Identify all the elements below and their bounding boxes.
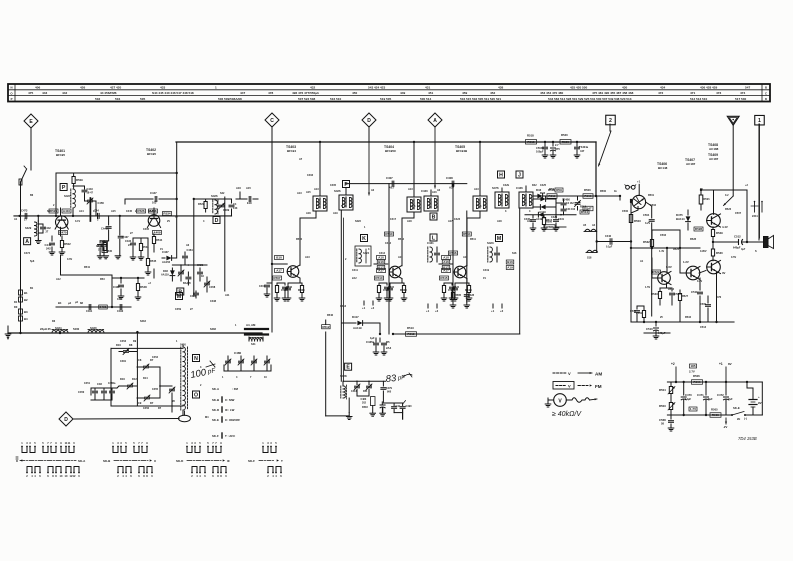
- svg-text:II : MW: II : MW: [225, 398, 235, 402]
- label TS402: [146, 148, 156, 156]
- svg-text:452: 452: [490, 91, 495, 95]
- svg-text:+1: +1: [362, 306, 366, 310]
- value box TS406 base: [652, 258, 661, 274]
- svg-text:R546: R546: [327, 314, 334, 317]
- svg-text:C428: C428: [468, 294, 475, 297]
- svg-text:A15: A15: [111, 210, 116, 213]
- svg-text:473: 473: [716, 91, 721, 95]
- svg-text:B: B: [178, 289, 182, 295]
- svg-text:3.2V: 3.2V: [645, 222, 650, 225]
- transistor TS407: [686, 266, 700, 280]
- svg-text:R507: R507: [273, 276, 281, 280]
- svg-text:S427: S427: [64, 194, 71, 198]
- svg-text:18-47: 18-47: [87, 191, 94, 194]
- svg-text:R505: R505: [298, 288, 305, 292]
- svg-text:C510: C510: [646, 327, 653, 331]
- svg-text:C48: C48: [97, 382, 102, 386]
- svg-text:C503: C503: [660, 234, 667, 237]
- diode D40: [533, 205, 556, 214]
- svg-text:100μF: 100μF: [536, 150, 544, 154]
- svg-text:+2: +2: [500, 309, 504, 313]
- svg-text:0.5V: 0.5V: [731, 256, 736, 259]
- svg-text:R534: R534: [685, 316, 692, 319]
- svg-text:431: 431: [425, 86, 430, 90]
- svg-text:BF194: BF194: [287, 149, 296, 153]
- switch SK-D axis: [176, 459, 230, 463]
- svg-text:P: P: [62, 185, 66, 191]
- wire B+ stage1: [314, 141, 321, 196]
- svg-text:C470: C470: [685, 393, 692, 397]
- label C420b: [190, 291, 199, 298]
- svg-text:R520: R520: [561, 133, 568, 137]
- trimmer C43a: [178, 266, 184, 281]
- svg-text:S426: S426: [334, 189, 341, 193]
- value box R547: [583, 198, 593, 210]
- transistor TS409: [707, 214, 721, 228]
- svg-text:C480a: C480a: [108, 382, 116, 385]
- wire: [368, 127, 370, 142]
- label +1 +2: [426, 304, 439, 313]
- varicap cluster: [159, 367, 175, 412]
- wire: [430, 190, 432, 196]
- label D1 D0: [14, 300, 18, 309]
- svg-text:406: 406: [35, 86, 40, 90]
- value box R514b: [580, 206, 589, 215]
- diode D427: [162, 250, 177, 264]
- svg-text:B2: B2: [24, 298, 28, 302]
- svg-text:471: 471: [690, 91, 695, 95]
- svg-text:R528: R528: [50, 209, 58, 213]
- value box R518: [526, 134, 537, 145]
- svg-text:R514: R514: [465, 288, 472, 292]
- value box pair: [506, 260, 514, 270]
- wire: [322, 320, 331, 416]
- svg-text:R585: R585: [455, 294, 462, 297]
- svg-text:0.6V: 0.6V: [67, 258, 72, 261]
- svg-text:+1: +1: [719, 362, 723, 366]
- decoupling caps: [536, 141, 560, 158]
- label TS401: [55, 149, 65, 157]
- label 4.4V: [722, 225, 728, 229]
- emitter network TS405: [448, 279, 472, 301]
- wire node out: [712, 241, 734, 243]
- coil S434: [52, 326, 68, 333]
- svg-text:D503: D503: [362, 406, 368, 409]
- capacitor C444: [45, 236, 55, 252]
- transistor TS405: [454, 265, 467, 278]
- label 5400: [73, 327, 80, 331]
- svg-text:438: 438: [498, 86, 503, 90]
- wire: [501, 188, 503, 192]
- svg-text:-2V: -2V: [723, 425, 727, 429]
- label S433: [40, 327, 51, 331]
- diode D43: [536, 188, 543, 198]
- capacitor C509: [700, 296, 711, 322]
- resistor R503a: [629, 215, 641, 249]
- svg-text:C: C: [270, 118, 274, 124]
- svg-text:0.2V: 0.2V: [697, 280, 702, 283]
- label 3V: [722, 271, 726, 275]
- svg-text:R510: R510: [375, 276, 383, 280]
- wire: [630, 199, 632, 322]
- svg-text:2A2: 2A2: [352, 277, 357, 280]
- svg-text:242: 242: [46, 247, 51, 251]
- svg-text:A15: A15: [246, 186, 251, 190]
- svg-text:(-): (-): [744, 417, 747, 421]
- svg-text:A10: A10: [443, 256, 449, 260]
- node O box: [193, 391, 200, 398]
- emitter network TS403: [281, 279, 305, 301]
- svg-text:C417: C417: [390, 218, 397, 221]
- resistor R502: [60, 236, 71, 252]
- capacitor C432: [101, 216, 111, 241]
- svg-text:C427: C427: [162, 250, 169, 254]
- svg-text:453 454 470 480: 453 454 470 480: [540, 91, 564, 95]
- svg-text:R518: R518: [527, 140, 535, 144]
- svg-text:C461: C461: [86, 309, 93, 313]
- resistor R529: [711, 227, 723, 242]
- main tuning coil: [181, 345, 188, 415]
- wire B+ stage3: [474, 141, 481, 196]
- svg-text:C408: C408: [446, 176, 453, 180]
- svg-text:M4: M4: [205, 416, 209, 419]
- svg-text:C451: C451: [84, 382, 91, 385]
- svg-text:+2: +2: [371, 306, 375, 310]
- svg-text:C435a: C435a: [366, 340, 375, 344]
- svg-text:640μF: 640μF: [733, 246, 741, 250]
- svg-text:A18: A18: [407, 220, 412, 223]
- svg-text:516 510: 516 510: [330, 97, 341, 101]
- FM dipole antenna: [21, 166, 27, 182]
- svg-text:R521: R521: [704, 197, 711, 201]
- svg-text:R532: R532: [643, 240, 650, 244]
- wire: [519, 209, 521, 334]
- IF transformer S426b: [339, 195, 353, 210]
- value box pair: [377, 260, 385, 270]
- svg-text:426: 426: [80, 86, 85, 90]
- svg-text:C456: C456: [143, 407, 150, 410]
- svg-text:B3: B3: [24, 310, 28, 314]
- svg-text:425 420 550: 425 420 550: [570, 86, 587, 90]
- node M box: [176, 293, 183, 300]
- dial lamp symbol: [625, 185, 636, 190]
- svg-text:SK-D: SK-D: [176, 459, 184, 463]
- svg-text:R508: R508: [400, 288, 407, 292]
- svg-text:+: +: [758, 395, 760, 399]
- value box R516: [449, 251, 458, 255]
- svg-text:B1: B1: [24, 291, 28, 295]
- svg-text:A10: A10: [398, 256, 403, 259]
- node C diamond: [265, 113, 279, 127]
- capacitor C471: [697, 382, 713, 415]
- svg-text:C459: C459: [175, 308, 182, 311]
- left secondary row: [56, 301, 131, 313]
- svg-text:BA114: BA114: [676, 217, 685, 221]
- wire: [272, 263, 287, 265]
- antenna symbol: [727, 116, 739, 125]
- svg-text:C4: C4: [233, 202, 237, 206]
- svg-text:0.2: 0.2: [725, 194, 729, 197]
- capacitor C473: [21, 209, 28, 222]
- svg-text:R505: R505: [711, 408, 718, 412]
- capacitor C443: [73, 186, 94, 198]
- label 1.2V: [683, 260, 689, 264]
- capacitor C446r: [605, 235, 613, 249]
- emitter network TS404: [383, 279, 407, 301]
- coil S427: [64, 189, 75, 216]
- value box R510: [385, 232, 394, 236]
- wire bottom rail: [8, 332, 262, 334]
- strip row 2 numbers: [28, 91, 745, 95]
- label C426: [516, 186, 523, 190]
- legend FM line: [553, 382, 602, 390]
- switch SK-F axis: [248, 459, 283, 463]
- svg-text:III : LW: III : LW: [225, 408, 235, 412]
- resistor R531: [636, 306, 646, 322]
- diode D475: [676, 210, 690, 230]
- capacitor C472: [717, 382, 733, 415]
- misc labels mid: [296, 158, 558, 317]
- svg-text:R533: R533: [668, 288, 675, 291]
- svg-text:475: 475: [28, 91, 33, 95]
- svg-text:202: 202: [362, 401, 367, 404]
- svg-text:C504: C504: [643, 213, 650, 217]
- svg-text:R530: R530: [106, 250, 113, 253]
- svg-text:T : AFC: T : AFC: [225, 434, 236, 438]
- svg-text:C445: C445: [126, 210, 133, 213]
- value box temp: [689, 364, 697, 374]
- strip row 1 numbers: [35, 86, 750, 90]
- label -2 arrow: [723, 417, 747, 430]
- svg-text:C480: C480: [234, 351, 242, 355]
- svg-text:14μF: 14μF: [685, 397, 691, 401]
- value box R528r: [694, 227, 703, 231]
- wire: [30, 128, 32, 170]
- ratio det RC: [524, 207, 565, 231]
- label SK-E legend: [212, 417, 240, 422]
- svg-text:S430: S430: [90, 326, 97, 330]
- wire: [596, 196, 598, 253]
- svg-text:R545: R545: [150, 259, 157, 263]
- svg-text:R527: R527: [682, 295, 689, 298]
- svg-text:R512: R512: [322, 325, 330, 329]
- svg-text:A409: A409: [153, 231, 161, 235]
- svg-text:474: 474: [740, 91, 745, 95]
- svg-text:449: 449: [400, 91, 405, 95]
- svg-text:2μF: 2μF: [728, 397, 733, 401]
- wire: [286, 264, 288, 272]
- value box R500: [583, 188, 593, 198]
- svg-text:R533: R533: [651, 292, 658, 296]
- switch SK-B contacts: [112, 441, 153, 478]
- svg-text:C507: C507: [735, 212, 742, 215]
- svg-text:R528: R528: [690, 238, 697, 241]
- svg-text:C511: C511: [691, 290, 698, 294]
- svg-text:1V: 1V: [483, 277, 486, 280]
- svg-text:S42: S42: [220, 192, 225, 195]
- capacitor C473: [659, 415, 674, 431]
- legend AM line: [553, 371, 602, 377]
- svg-text:B4: B4: [58, 301, 62, 305]
- svg-text:C472: C472: [717, 393, 724, 397]
- tank S423: [487, 241, 500, 262]
- svg-text:R580: R580: [546, 221, 553, 224]
- svg-text:C447: C447: [150, 191, 157, 195]
- label SK-F legend: [212, 433, 236, 438]
- wire detector line: [533, 195, 597, 197]
- svg-text:D48: D48: [163, 269, 168, 273]
- svg-text:504 515 502 505 511 520 521: 504 515 502 505 511 520 521: [460, 97, 501, 101]
- wire: [597, 240, 633, 242]
- svg-text:C458: C458: [209, 285, 216, 289]
- svg-text:C471: C471: [697, 393, 704, 397]
- svg-text:D10: D10: [116, 343, 121, 347]
- ferrite sleeve: [19, 179, 22, 185]
- trimmer T4: [137, 395, 160, 405]
- headphone jack A5 A4: [583, 224, 597, 232]
- svg-text:R5: R5: [386, 340, 390, 344]
- switch SK-D contacts: [186, 441, 227, 478]
- svg-text:506 509/508A/98: 506 509/508A/98: [218, 97, 242, 101]
- wire: [745, 382, 762, 415]
- IF transformer S421a: [407, 197, 421, 212]
- gang cap bar: [89, 198, 91, 221]
- svg-text:S434: S434: [55, 326, 62, 330]
- svg-text:R500: R500: [584, 194, 592, 198]
- svg-text:P: P: [11, 97, 13, 101]
- svg-text:C469: C469: [223, 208, 230, 212]
- wire: [701, 190, 748, 243]
- capacitor C448: [247, 197, 258, 206]
- svg-text:A18: A18: [306, 212, 311, 215]
- svg-text:434: 434: [660, 86, 665, 90]
- svg-text:D417: D417: [352, 315, 359, 319]
- switch SK-E: [731, 406, 746, 421]
- svg-text:A27: A27: [449, 186, 455, 190]
- svg-text:AA119: AA119: [161, 274, 169, 277]
- wire base rail: [14, 215, 232, 217]
- svg-text:AC188: AC188: [709, 147, 719, 151]
- node A box: [24, 238, 31, 245]
- stage feed TS404: [374, 256, 388, 273]
- svg-text:R514: R514: [581, 210, 589, 214]
- label TS404: [384, 145, 397, 153]
- svg-text:C450: C450: [78, 390, 85, 394]
- svg-text:A: A: [433, 118, 437, 124]
- label TS408: [708, 143, 719, 151]
- svg-text:A17: A17: [276, 269, 282, 273]
- svg-text:0.1μF: 0.1μF: [606, 246, 613, 249]
- svg-text:3V: 3V: [722, 271, 726, 275]
- svg-text:R527: R527: [198, 202, 205, 206]
- diode D417: [342, 315, 381, 335]
- capacitor C447: [125, 191, 178, 205]
- label TS405: [455, 145, 468, 153]
- resistor R548: [135, 278, 147, 300]
- svg-text:4.4V: 4.4V: [722, 225, 728, 229]
- svg-text:475 481 490 455 487 458 468: 475 481 490 455 487 458 468: [592, 91, 634, 95]
- svg-text:R509: R509: [76, 178, 83, 182]
- loudspeaker: [754, 236, 774, 249]
- svg-text:C44: C44: [94, 209, 99, 213]
- trimmer C413: [351, 381, 360, 394]
- wire: [679, 230, 687, 273]
- svg-text:C423: C423: [454, 218, 461, 221]
- svg-text:SK-B: SK-B: [103, 459, 111, 463]
- capacitor bank C480: [224, 351, 271, 371]
- value box TP: [689, 407, 697, 411]
- diode D40b: [536, 212, 544, 221]
- wire: [596, 195, 620, 197]
- svg-text:A10: A10: [378, 256, 384, 260]
- svg-text:1.4V: 1.4V: [659, 250, 664, 253]
- switch SK-B axis: [103, 459, 156, 463]
- wire: [61, 255, 113, 275]
- svg-text:C568: C568: [659, 418, 666, 422]
- svg-text:C513: C513: [700, 326, 707, 329]
- svg-text:C405: C405: [330, 184, 337, 187]
- svg-text:+2: +2: [671, 362, 675, 366]
- antenna jack contacts: [751, 201, 763, 218]
- svg-text:23μH 25: 23μH 25: [40, 327, 51, 331]
- trimmer C458b: [204, 277, 216, 292]
- svg-text:T: T: [281, 459, 283, 463]
- value box R519: [547, 188, 557, 198]
- wire: [714, 190, 716, 214]
- svg-text:543 424 423: 543 424 423: [368, 86, 385, 90]
- svg-text:0.95V: 0.95V: [700, 250, 707, 253]
- svg-text:R528: R528: [695, 227, 703, 231]
- wire: [526, 186, 533, 192]
- svg-text:R523: R523: [725, 208, 732, 211]
- node E diamond: [24, 114, 38, 128]
- svg-text:A19: A19: [507, 266, 513, 270]
- svg-text:C490: C490: [406, 405, 413, 408]
- svg-text:C420: C420: [421, 189, 428, 193]
- svg-text:SK-F: SK-F: [212, 434, 219, 438]
- svg-text:D12: D12: [132, 377, 137, 381]
- elco C510: [646, 322, 666, 339]
- svg-text:D14: D14: [143, 377, 148, 380]
- svg-text:R513: R513: [407, 326, 414, 330]
- svg-text:472: 472: [658, 91, 663, 95]
- node K box: [361, 235, 368, 242]
- ground: [97, 256, 120, 259]
- node E box: [345, 363, 352, 370]
- svg-text:J: J: [518, 172, 521, 178]
- svg-text:B16: B16: [378, 260, 384, 264]
- mixer parts: [125, 238, 157, 275]
- label S428: [340, 374, 347, 378]
- svg-text:R510: R510: [385, 232, 393, 236]
- svg-text:44 456/FM6: 44 456/FM6: [100, 91, 117, 95]
- capacitor C448a: [96, 241, 107, 256]
- value box A409: [153, 231, 162, 235]
- svg-text:BF195: BF195: [56, 153, 65, 157]
- node H box: [498, 171, 505, 178]
- wire det line2: [525, 214, 576, 216]
- svg-text:2E: 2E: [737, 417, 740, 421]
- wire E bottom rail: [326, 413, 386, 420]
- capacitor C407: [386, 176, 395, 190]
- svg-text:A14: A14: [527, 220, 532, 223]
- svg-text:SK-B: SK-B: [212, 398, 219, 402]
- svg-text:2341: 2341: [752, 214, 758, 218]
- svg-text:R513: R513: [407, 332, 415, 336]
- svg-text:D: D: [215, 218, 219, 224]
- svg-text:E: E: [346, 365, 350, 371]
- svg-text:S423: S423: [487, 241, 494, 245]
